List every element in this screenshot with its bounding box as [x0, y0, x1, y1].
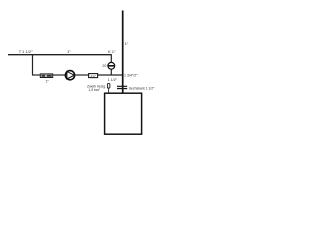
wire: lower line, union to pump: [53, 74, 66, 76]
svg-text:K 1″: K 1″: [108, 49, 116, 54]
wire: drop from K corner through valve: [110, 54, 112, 75]
svg-text:1″: 1″: [125, 41, 129, 46]
svg-text:1,5 bar″: 1,5 bar″: [88, 88, 101, 92]
safety valve pill: [107, 83, 110, 92]
tank: [105, 93, 142, 134]
wire: left vertical drop: [32, 54, 34, 75]
pump P1: [65, 71, 74, 80]
wire: meter box to riser: [98, 74, 123, 76]
svg-text:Sechskant 1 1/2″: Sechskant 1 1/2″: [129, 86, 155, 90]
wire: pump to meter box: [75, 74, 89, 76]
svg-text:T 1 1/2″: T 1 1/2″: [19, 49, 33, 54]
union coupling symbol: [40, 74, 52, 78]
main riser pipe: [122, 11, 124, 94]
valve gauge (circle with bar): [108, 62, 115, 69]
heat meter box 217: [89, 74, 98, 79]
svg-text:1 3/4″/2″: 1 3/4″/2″: [124, 74, 138, 78]
wire: lower line, left segment: [32, 74, 41, 76]
svg-text:217: 217: [91, 74, 96, 78]
svg-text:1 1/2″: 1 1/2″: [108, 78, 118, 82]
svg-text:1″: 1″: [67, 49, 71, 54]
hex nipple (two bars): [117, 86, 127, 90]
svg-text:20: 20: [102, 64, 106, 68]
wire: top supply line: [8, 54, 112, 56]
